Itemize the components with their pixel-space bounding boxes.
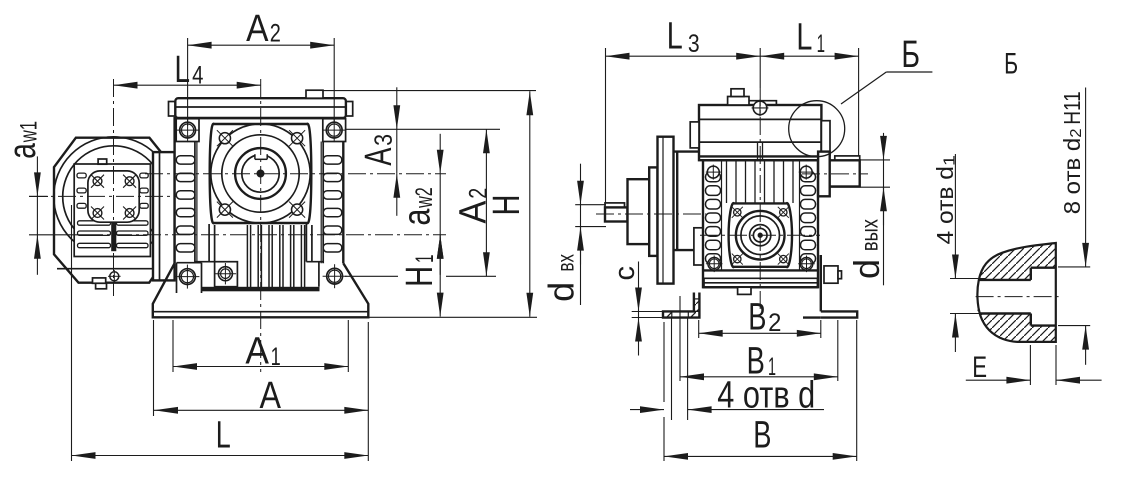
intermediate flange squircle: [729, 203, 792, 267]
dim L extension: [71, 205, 73, 461]
dim L4: [114, 49, 261, 91]
vent top extension: [324, 90, 537, 92]
lower-left bolt: [175, 265, 199, 289]
detail bore d2: [1031, 268, 1056, 326]
middle bottom screws: [706, 256, 815, 273]
svg-text:4: 4: [192, 62, 203, 90]
dim A: [154, 375, 368, 417]
svg-text:L: L: [175, 49, 191, 91]
dim H: [486, 91, 533, 317]
svg-text:1: 1: [411, 255, 439, 263]
dim 4otv d: [630, 319, 824, 462]
dim B1: [680, 341, 838, 383]
svg-text:3: 3: [370, 134, 398, 146]
motor-gearbox adapter flange: [153, 152, 175, 280]
svg-text:a: a: [397, 208, 439, 226]
oil fill screw: [752, 100, 769, 117]
motor housing circles: [54, 137, 174, 257]
dim aw1: [2, 121, 85, 275]
middle vertical center line: [759, 88, 761, 310]
output axis center line middle: [802, 173, 868, 175]
middle inner fins: [727, 160, 794, 203]
electric motor outline (octagon), front view: [54, 138, 173, 283]
motor plate screws: [91, 175, 136, 220]
dim B1 extensions: [680, 296, 838, 381]
detail center line: [976, 296, 1060, 298]
output shaft key: [835, 156, 860, 160]
output shaft circles: [211, 124, 310, 223]
svg-text:L: L: [216, 415, 231, 457]
motor bottom screw: [108, 270, 121, 283]
svg-text:B: B: [753, 414, 771, 456]
cap right tab: [346, 102, 353, 117]
svg-text:A: A: [358, 147, 400, 165]
middle bottom flange: [703, 270, 818, 287]
left foot bracket: [663, 293, 699, 318]
output axis center line: [145, 173, 446, 175]
svg-text:w2: w2: [411, 187, 438, 208]
svg-text:1: 1: [271, 343, 281, 371]
keyway: [255, 152, 267, 160]
svg-text:2: 2: [768, 309, 781, 337]
svg-text:E: E: [972, 351, 987, 384]
callout circle B: [789, 101, 845, 157]
intermediate circles: [736, 211, 785, 260]
output hub: [818, 152, 830, 197]
cap left ledge: [690, 122, 699, 148]
motor bottom tab: [93, 278, 107, 289]
motor bearing plate (rounded square): [88, 171, 139, 222]
output flange (squircle): [210, 124, 312, 224]
middle upper-left screw: [706, 165, 721, 180]
dim A2 top: [188, 8, 335, 50]
dim B2: [699, 297, 821, 339]
svg-text:3: 3: [688, 30, 700, 58]
dim A1: [173, 331, 348, 373]
svg-text:c: c: [609, 266, 641, 281]
svg-text:H: H: [399, 266, 441, 287]
dim A1 extensions: [173, 320, 348, 372]
svg-text:4 отв d: 4 отв d: [932, 166, 958, 244]
svg-text:w1: w1: [16, 121, 43, 143]
dim L3: [606, 16, 761, 60]
dim L1: [760, 17, 858, 60]
cap right ledge: [821, 121, 830, 156]
middle right fin column: [800, 160, 816, 270]
dim E: [966, 345, 1102, 385]
gearbox top cap: [175, 98, 346, 118]
dim c: [609, 262, 664, 356]
svg-text:2: 2: [270, 20, 281, 48]
input flange disc large: [658, 137, 674, 284]
dim d_vyx: [830, 133, 890, 285]
dim H1: [399, 235, 444, 317]
svg-text:8 отв d: 8 отв d: [1059, 138, 1085, 215]
input hub: [628, 179, 650, 244]
svg-text:вых: вых: [857, 219, 883, 251]
dim B extension: [856, 320, 858, 461]
svg-text:L: L: [796, 17, 812, 59]
detail hole d1: [979, 280, 1031, 314]
dim A extensions: [154, 320, 369, 461]
svg-text:H: H: [486, 195, 528, 216]
worm axis center line: [85, 234, 446, 236]
bell lower boss: [694, 228, 703, 265]
callout label B: [901, 34, 920, 76]
bolt line extension right upper: [345, 128, 500, 130]
motor top tab: [98, 159, 107, 164]
middle body: [703, 160, 818, 287]
right fin column: [321, 118, 342, 263]
dim d_vx: [541, 164, 606, 305]
motor fins frame: [74, 164, 150, 257]
input shaft key: [605, 203, 625, 208]
upper-right bolt: [322, 118, 346, 142]
dim 8otv d2 H11: [1058, 88, 1090, 365]
upper-right bolt pocket: [323, 119, 346, 142]
lower-right bolt pocket: [318, 262, 320, 287]
svg-text:2: 2: [1068, 128, 1085, 137]
callout leader: [841, 72, 932, 104]
input flange disc middle: [649, 167, 657, 256]
upper-left bolt: [176, 118, 200, 142]
motor axis center line: [29, 195, 176, 197]
vent plug on cap: [306, 90, 323, 98]
oil level window: [758, 142, 763, 160]
svg-text:1: 1: [942, 155, 959, 166]
lower-right bolt: [323, 264, 347, 288]
svg-text:A: A: [246, 8, 269, 50]
input axis center line: [596, 213, 706, 215]
svg-text:Б: Б: [901, 34, 920, 76]
lower-left bolt pocket: [177, 263, 202, 293]
input shaft stub: [605, 207, 628, 221]
dim B2 extensions: [699, 320, 821, 338]
svg-text:d: d: [846, 259, 887, 279]
svg-text:A: A: [260, 375, 282, 417]
dim L3 extensions: [606, 48, 761, 203]
gearbox body front: [175, 118, 344, 263]
middle cap: [699, 105, 821, 160]
intermediate axis center line: [700, 234, 820, 236]
upper-left bolt pocket: [176, 119, 199, 142]
output shaft: [830, 160, 860, 186]
front view vertical center line: [260, 79, 262, 372]
middle vent plug: [728, 89, 749, 105]
lower-middle bolt: [215, 263, 236, 284]
left fin column: [176, 118, 197, 263]
body bottom shelf: [203, 287, 319, 290]
dim aw2: [397, 134, 444, 275]
motor vertical center line: [113, 79, 115, 296]
dim 4otv d1: [932, 154, 985, 352]
section title B: [1004, 47, 1018, 80]
lower-middle bolt pocket: [215, 262, 238, 287]
vertical ribs under flange: [195, 224, 323, 287]
base pedestal: [153, 263, 368, 317]
intermediate flange screws: [732, 207, 789, 265]
right foot bracket: [803, 255, 857, 318]
dim B: [664, 414, 857, 460]
motor cooling fins: [77, 173, 148, 251]
dim L1 extension: [858, 48, 860, 156]
base bottom extension: [368, 316, 537, 318]
bell housing: [674, 152, 704, 251]
right side plug screw: [824, 266, 842, 283]
flange screws: [217, 130, 305, 217]
svg-text:a: a: [2, 143, 44, 159]
middle bottom tab: [738, 287, 751, 294]
dim A3: [358, 87, 400, 216]
dim A2 right: [453, 129, 495, 276]
middle left fin column: [706, 160, 722, 270]
svg-text:d: d: [541, 282, 582, 302]
cap left tab: [169, 102, 176, 117]
bolt line extension right lower: [345, 275, 496, 277]
detail outline: [977, 243, 1055, 342]
svg-text:1: 1: [817, 30, 825, 58]
svg-text:вх: вх: [553, 254, 579, 272]
svg-text:Б: Б: [1004, 47, 1018, 80]
dim A2 top extension lines: [188, 38, 335, 126]
dim L: [72, 415, 369, 459]
middle upper-right screw: [799, 165, 814, 180]
svg-text:B: B: [748, 297, 766, 339]
svg-text:H11: H11: [1059, 91, 1085, 125]
svg-text:L: L: [667, 16, 683, 58]
detail blob hatched: [977, 243, 1055, 342]
svg-text:A: A: [245, 331, 269, 373]
cap bump over screw: [747, 101, 777, 105]
svg-text:4 отв d: 4 отв d: [717, 374, 815, 416]
